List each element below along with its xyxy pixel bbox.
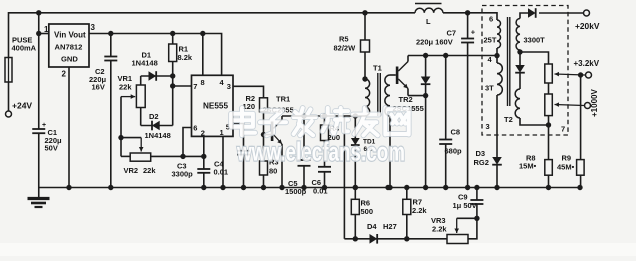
svg-text:0.01: 0.01 (214, 168, 229, 177)
svg-text:500: 500 (361, 207, 374, 216)
wire TR1 collector bus (282, 115, 365, 117)
svg-text:50V: 50V (45, 144, 58, 153)
resistor R9 45M (580, 75, 582, 160)
diode D2 1N4148 (141, 125, 173, 127)
divider resistor RV2 (545, 94, 553, 116)
potentiometer VR1 22k (140, 76, 142, 85)
wire pin7 R8 (548, 125, 550, 160)
wire pin7 (173, 85, 192, 87)
diode TD1 (351, 138, 360, 145)
capacitor C1 (38, 34, 40, 130)
wire +1000V tap (555, 105, 585, 106)
wire 12V rail (89, 34, 222, 76)
regulator U2 AN7812 (49, 24, 89, 67)
svg-text:+24V: +24V (12, 101, 32, 111)
resistor R8 15M (545, 160, 553, 176)
resistor R1 (172, 34, 174, 45)
svg-text:RG2: RG2 (474, 158, 489, 167)
wire 7812 GND drop (68, 67, 70, 188)
resistor R5 82/2W (364, 13, 366, 40)
diode D5 output rectifier (539, 12, 584, 14)
wire T1 sec bottom drop (387, 185, 392, 190)
svg-text:400mA: 400mA (12, 44, 37, 53)
svg-text:+1000V: +1000V (590, 89, 599, 117)
diode D1 1N4148 (141, 75, 173, 77)
resistor R4 200 (324, 116, 326, 125)
svg-text:D2: D2 (149, 112, 159, 121)
svg-text:C8: C8 (451, 128, 461, 137)
inductor L (415, 8, 443, 13)
wire Vin riser (38, 13, 40, 34)
svg-text:22k: 22k (119, 83, 132, 92)
svg-text:T1: T1 (373, 64, 382, 73)
watermark row2 (236, 137, 405, 167)
svg-text:TR1: TR1 (276, 95, 290, 104)
svg-text:D3: D3 (476, 149, 486, 158)
divider resistor RV1 (520, 52, 549, 64)
IC U1 NE555 (192, 75, 234, 136)
svg-text:1: 1 (44, 25, 49, 34)
svg-text:1: 1 (220, 128, 224, 137)
capacitor C6 0.01 (318, 166, 331, 168)
svg-text:2: 2 (62, 70, 67, 79)
svg-text:R5: R5 (339, 35, 349, 44)
svg-text:2: 2 (201, 129, 205, 138)
svg-text:25T: 25T (484, 36, 497, 45)
svg-text:8: 8 (201, 78, 205, 87)
terminal +3.2kV (586, 72, 592, 78)
svg-text:8.2k: 8.2k (178, 53, 193, 62)
svg-text:220μ 160V: 220μ 160V (416, 38, 453, 47)
ground symbol (38, 188, 40, 198)
wire +3.2kV tap (555, 74, 586, 75)
capacitor C2 (110, 34, 112, 57)
svg-text:2.2k: 2.2k (432, 224, 447, 233)
transistor Q1 TR1 2SC2655 (264, 134, 271, 136)
svg-text:3300T: 3300T (524, 36, 546, 45)
wire pin1 drop (222, 136, 224, 187)
resistor R7 2.2k (406, 188, 408, 200)
svg-text:L: L (426, 17, 431, 26)
ground rail (39, 187, 581, 189)
diode D3 RG2 (496, 135, 498, 157)
capacitor C7 220u 160V (467, 13, 469, 39)
svg-text:H27: H27 (383, 222, 397, 231)
wire VR1 wiper to VR2 (120, 97, 122, 157)
svg-text:3300p: 3300p (172, 170, 194, 179)
svg-text:15M•: 15M• (519, 162, 537, 171)
svg-text:GND: GND (61, 55, 78, 64)
svg-text:+20kV: +20kV (575, 21, 600, 31)
svg-text:2.2k: 2.2k (412, 206, 427, 215)
svg-text:+: + (471, 28, 476, 37)
svg-text:+3.2kV: +3.2kV (574, 59, 600, 68)
svg-text:3: 3 (227, 82, 231, 91)
svg-text:22k: 22k (143, 166, 156, 175)
svg-text:AN7812: AN7812 (55, 43, 83, 52)
svg-text:+: + (42, 122, 46, 129)
resistor R3 80 (263, 135, 265, 161)
wire pin6 (183, 128, 192, 157)
wire feedback riser (343, 116, 345, 239)
svg-text:1N4148: 1N4148 (132, 59, 158, 68)
resistor R6 500 (354, 116, 356, 199)
svg-text:3: 3 (91, 23, 96, 32)
terminal +20kV (584, 10, 590, 16)
transformer T2 primary 25T (497, 20, 501, 48)
wire TR2 collector to T2 pin4 (408, 55, 497, 57)
svg-text:T2: T2 (504, 115, 513, 124)
svg-text:80: 80 (269, 167, 277, 176)
fuse F1 (5, 58, 12, 83)
svg-text:7: 7 (561, 125, 565, 134)
svg-text:Vout: Vout (69, 31, 87, 40)
svg-text:680p: 680p (445, 147, 463, 156)
transformer T2 secondary 3300T (520, 13, 528, 19)
svg-text:3T: 3T (485, 84, 494, 93)
svg-text:TR2: TR2 (399, 95, 413, 104)
svg-text:www.elecfans.com: www.elecfans.com (236, 137, 405, 167)
capacitor C8 680p (445, 56, 447, 140)
transformer T1 (365, 79, 370, 116)
svg-text:6: 6 (193, 124, 197, 133)
svg-text:VR2: VR2 (124, 166, 139, 175)
svg-text:D4: D4 (367, 222, 377, 231)
svg-text:Vin: Vin (54, 31, 66, 40)
svg-text:NE555: NE555 (203, 102, 228, 111)
svg-text:45M•: 45M• (557, 163, 575, 172)
watermark row1 (231, 108, 409, 135)
svg-text:1μ 50V: 1μ 50V (453, 201, 477, 210)
diode D4 H27 (370, 234, 378, 244)
capacitor C4 0.01 (233, 124, 244, 151)
potentiometer VR2 22k (130, 153, 151, 161)
transistor Q2 TR2 2SC1555 (396, 67, 399, 85)
svg-text:C7: C7 (447, 29, 457, 38)
svg-text:7: 7 (193, 82, 197, 91)
transformer T2 core (507, 17, 509, 106)
svg-text:1N4148: 1N4148 (145, 131, 171, 140)
capacitor C5 1500p (303, 116, 305, 160)
bottom feedback rail (344, 238, 447, 240)
resistor R2 120 (233, 86, 264, 98)
capacitor C3 3300p (203, 136, 205, 169)
svg-text:6: 6 (489, 15, 493, 24)
svg-text:3: 3 (486, 122, 490, 131)
wire +24V top rail (9, 13, 416, 58)
diode damper TR2 (425, 56, 427, 77)
capacitor C9 1u 50V (476, 188, 478, 201)
svg-text:16V: 16V (92, 83, 105, 92)
dashed box T2 assembly (482, 6, 568, 136)
svg-text:R9: R9 (562, 154, 572, 163)
terminal +24V (6, 111, 12, 117)
potentiometer VR3 2.2k (447, 235, 468, 244)
terminal +1000V (585, 103, 591, 109)
svg-text:82/2W: 82/2W (334, 44, 357, 53)
transformer T2 primary 3T (497, 63, 502, 95)
